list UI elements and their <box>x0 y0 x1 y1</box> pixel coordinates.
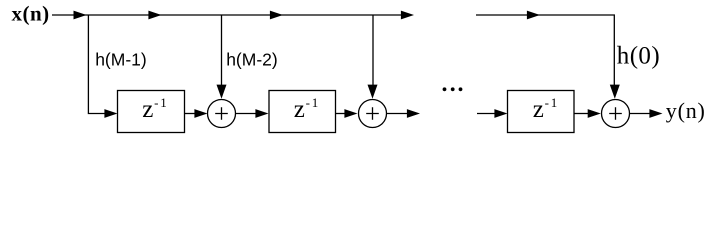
svg-text:z: z <box>533 96 544 123</box>
svg-text:y(n): y(n) <box>666 98 706 123</box>
svg-text:-1: -1 <box>154 95 168 110</box>
svg-text:z: z <box>294 96 305 123</box>
svg-text:x(n): x(n) <box>12 2 50 26</box>
svg-text:-1: -1 <box>545 95 559 110</box>
svg-text:z: z <box>142 96 153 123</box>
svg-text:h(M-2): h(M-2) <box>226 50 278 70</box>
svg-text:-1: -1 <box>306 95 320 110</box>
svg-text:h(M-1): h(M-1) <box>95 50 147 70</box>
svg-text:h(0): h(0) <box>617 42 660 69</box>
